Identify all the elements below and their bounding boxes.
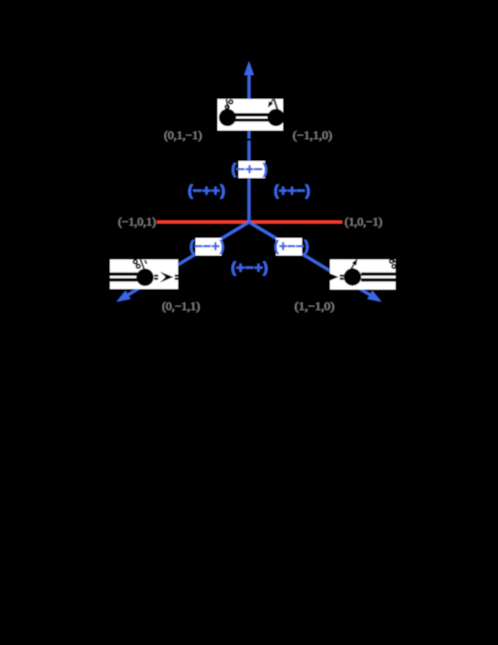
blue down-left axis shaft [126, 222, 249, 296]
blue down-right axis arrowhead [367, 291, 383, 306]
svg-text:(+−+): (+−+) [231, 260, 268, 277]
bottom-right ball [344, 268, 361, 285]
blue up axis arrowhead [244, 61, 254, 75]
top left ball squiggle [225, 99, 232, 110]
top illustration box [218, 99, 284, 131]
svg-text:(+−−): (+−−) [274, 238, 309, 255]
top dumbbell bar [227, 113, 277, 116]
blue up axis shaft [248, 72, 251, 222]
red horizontal axis wire [157, 221, 342, 224]
svg-text:(−1,1,0): (−1,1,0) [293, 130, 333, 142]
svg-text:(1,−1,0): (1,−1,0) [295, 301, 335, 313]
label box (-+-) [239, 161, 266, 178]
bottom-left tiny equals after arrow [175, 275, 178, 277]
bottom-left small equals [154, 275, 158, 277]
top right ball arrow [270, 99, 273, 105]
svg-text:(0,−1,1): (0,−1,1) [162, 301, 200, 313]
gap on up axis shaft [246, 139, 253, 141]
bottom-left ball [136, 269, 153, 286]
top left ball [219, 109, 236, 126]
bottom-right corner squiggle [390, 260, 396, 269]
blue down-left axis arrowhead [114, 291, 130, 306]
bottom-right illustration box [330, 260, 396, 290]
top right ball [267, 109, 284, 126]
svg-text:(1,0,−1): (1,0,−1) [345, 217, 383, 229]
svg-text:(−1,0,1): (−1,0,1) [118, 217, 156, 229]
bottom-right bar [361, 272, 396, 275]
bottom-left ball squiggle [134, 260, 147, 269]
label box (--+) [196, 238, 222, 256]
svg-text:(++−): (++−) [274, 183, 311, 200]
label box (+--) [276, 238, 302, 256]
svg-text:(0,1,−1): (0,1,−1) [164, 130, 202, 142]
blue down-right axis shaft [249, 222, 372, 296]
bottom-right clipped stealth arrowhead [330, 273, 339, 280]
bottom-left illustration box [110, 260, 178, 290]
bottom-right ball arrow [350, 262, 355, 270]
svg-text:(−+−): (−+−) [231, 161, 268, 178]
svg-text:(−++): (−++) [188, 183, 226, 200]
bottom-left stealth arrowhead [160, 272, 174, 283]
top right ball line [274, 99, 278, 109]
bottom-right small equals [340, 275, 344, 277]
bottom-left bar [110, 272, 138, 275]
svg-text:(−−+): (−−+) [190, 238, 225, 255]
